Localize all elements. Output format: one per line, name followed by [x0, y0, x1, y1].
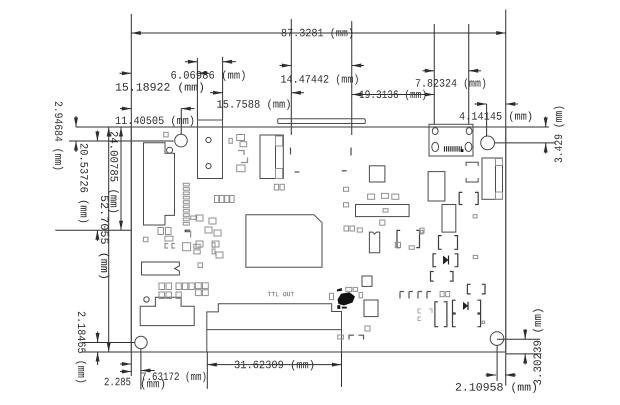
extension line bottom edge right — [506, 353, 542, 355]
component bracket S5 — [467, 284, 485, 294]
extension line x351 — [351, 21, 353, 135]
dimension 87.3281 mm overall width — [131, 28, 505, 38]
dimension 7.63172 mm — [120, 362, 206, 382]
component bracket S1 — [459, 192, 478, 204]
label TTL OUT — [268, 292, 294, 296]
component bracket S4 — [431, 272, 454, 282]
dimension 2.18465 mm — [76, 312, 100, 383]
extension line hole4 center right — [497, 338, 540, 340]
extension line x197 — [196, 58, 198, 120]
small pads field — [143, 135, 484, 340]
dimension 15.18922 mm — [116, 71, 209, 93]
dimension 6.06986 mm — [171, 60, 244, 81]
extension line x468 — [468, 24, 470, 124]
dimension 19.3136 mm — [352, 90, 434, 101]
component square M — [369, 166, 385, 182]
extension line top edge right — [506, 126, 549, 128]
dimension 2.10958 mm — [456, 373, 536, 393]
component crystal R — [369, 232, 379, 253]
mounting hole H2 top-right — [481, 136, 495, 150]
connector CN2 top-left — [198, 120, 223, 179]
dimension 31.62309 mm — [207, 360, 341, 371]
faint pads left of cluster — [418, 309, 432, 321]
component rect below blob — [364, 300, 378, 317]
dimension 2.94684 mm — [53, 102, 78, 170]
mounting hole H4 bottom-right — [490, 332, 504, 346]
dimension 7.82324 mm — [416, 69, 486, 89]
component notched rect C-elec — [142, 262, 180, 275]
board outline — [131, 127, 505, 352]
pin ladder left — [183, 183, 196, 232]
extension line bottom edge left — [82, 351, 131, 353]
extension line hole3 center — [82, 342, 135, 344]
connector top middle thin — [278, 119, 366, 124]
extension line connector bottom left — [55, 229, 131, 231]
dimension 20.53726 mm — [78, 131, 99, 242]
bracket pads c-c — [165, 244, 175, 249]
dimension 3.30239 mm — [523, 309, 543, 385]
dimension 4.14145 mm — [460, 102, 532, 122]
extension line top edge left — [76, 126, 132, 128]
extension line ttl left down — [206, 352, 208, 389]
component diode D2 cluster — [453, 300, 481, 327]
short dash marks top middle — [290, 148, 292, 155]
extension line hole4 leader down — [496, 345, 498, 381]
dimension 2.285 mm — [105, 369, 165, 390]
connector CN3 mini-HDMI top-right — [429, 124, 473, 156]
dimension 14.47442 mm — [280, 64, 365, 85]
pad right of blob — [359, 292, 363, 297]
component U2 stepped bottom-left — [140, 297, 194, 326]
dimension 52.7055 mm — [99, 127, 111, 352]
component rect above blob — [362, 276, 372, 286]
component bracket S3 — [439, 236, 458, 250]
dimension 11.40505 mm — [116, 107, 195, 127]
component bracket S6 tall — [435, 302, 447, 327]
dimension 24.00785 mm — [108, 127, 123, 230]
connector J1 mid (DF13) — [260, 135, 283, 179]
component bracket S2 — [397, 230, 423, 247]
IC U1 main controller — [246, 215, 322, 267]
pin header row bottom — [400, 292, 450, 299]
extension line hole1 leader — [180, 109, 182, 134]
component long rect Q — [356, 205, 410, 217]
connector TTL OUT — [207, 304, 342, 352]
bracket pads mid-left — [238, 151, 248, 163]
inductor blob black — [337, 288, 355, 309]
dimension 15.7588 mm — [210, 91, 304, 110]
extension line hole1 center — [69, 140, 174, 142]
bracket pads right of ttl — [349, 335, 364, 339]
connector CN1 left tall — [144, 132, 175, 225]
extension line right board edge vertical — [505, 10, 507, 386]
extension line left board edge vertical — [130, 14, 132, 376]
extension line hole2 leader — [486, 104, 488, 136]
dimension 3.429 mm — [544, 107, 565, 163]
mounting hole H1 top-left — [175, 134, 188, 147]
extension line ttl right down — [341, 352, 343, 387]
component dashed square O — [466, 162, 478, 182]
mounting hole H3 bottom-left — [135, 336, 147, 348]
extension line x434 — [433, 24, 435, 124]
extension line hole2 center right — [495, 142, 556, 144]
pad near blob — [330, 293, 334, 299]
bracket pad near ladder — [186, 231, 191, 238]
extension line hole3 leader down — [140, 349, 142, 390]
component diode D1 — [433, 254, 458, 267]
component rect P — [442, 205, 456, 233]
extension line x291 — [290, 19, 292, 135]
extension line x222 — [222, 57, 224, 120]
component tall rect N — [428, 172, 445, 201]
connector J2 right (DF13) — [482, 158, 503, 199]
